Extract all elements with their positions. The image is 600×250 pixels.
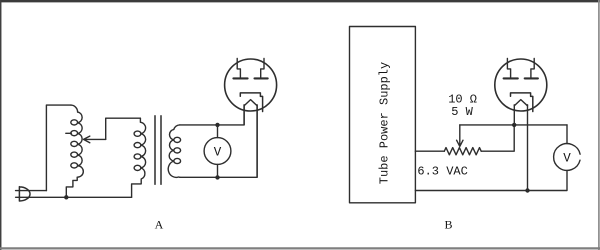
tube V2 cathode (511, 93, 533, 112)
wire: wiper to transformer primary (106, 118, 141, 139)
border frame bottom (0, 247, 600, 249)
tube V1 right plate lead (261, 58, 264, 77)
transformer T2 secondary top hook (174, 125, 180, 129)
AC plug P1 top prong wire (16, 190, 47, 192)
transformer T2 primary loop circles (134, 131, 141, 136)
junction dot bottom wire / voltmeter A (215, 175, 219, 179)
wire: plug top prong riser up to variac top (46, 105, 71, 191)
svg-text:6.3 VAC: 6.3 VAC (417, 164, 467, 178)
transformer T2 primary top step (139, 118, 141, 122)
tube V1 filament left pin (243, 105, 245, 125)
variac T1 top hook (71, 105, 78, 112)
wire: voltmeter M2 top lead (566, 125, 568, 144)
svg-text:Tube Power Supply: Tube Power Supply (378, 62, 392, 184)
tube V1 filament right pin (256, 105, 258, 178)
junction dot bottom wire / tube pin (525, 188, 529, 192)
Tube Power Supply box (350, 27, 416, 203)
tube V1 envelope (225, 59, 277, 111)
variac wiper arrow (84, 136, 106, 143)
wire: box to resistor (415, 150, 444, 152)
bottom wire: plug bottom prong to transformer primary (16, 196, 132, 198)
tube V2 envelope (495, 59, 547, 111)
tube V2 filament left pin (513, 105, 515, 125)
junction dot top wire / voltmeter A (215, 123, 219, 127)
AC plug P1 body (19, 187, 30, 201)
transformer T2 primary winding arcs (141, 122, 146, 168)
variac T1 winding arcs (78, 112, 83, 166)
top wire B: wiper to voltmeter (460, 124, 567, 126)
transformer T2 secondary bottom lead (168, 161, 180, 177)
tube V2 right plate lead (531, 58, 534, 77)
tube V1 filament (244, 100, 257, 106)
voltmeter M2 body (554, 144, 581, 171)
transformer T2 secondary winding arcs (169, 129, 174, 161)
tube V2 filament (514, 100, 527, 106)
svg-text:V: V (563, 151, 571, 165)
variac wiper position tick (66, 132, 72, 134)
junction dot node B1 (512, 123, 516, 127)
border frame right (598, 0, 600, 250)
resistor R1 10 ohm 5 W (444, 148, 481, 155)
tube V2 right plate (525, 77, 538, 79)
transformer T2 core (155, 116, 161, 184)
transformer T2 primary bottom lead step (132, 168, 145, 197)
svg-text:A: A (155, 217, 164, 231)
tube V2 left plate lead (507, 58, 510, 77)
svg-text:5 W: 5 W (451, 105, 473, 119)
border frame left (0, 0, 2, 250)
tube V2 filament right pin (527, 105, 529, 191)
wire: resistor right to node B1 (481, 125, 514, 151)
voltmeter M2 bottom lead and bottom wire to box (415, 170, 567, 190)
tube V1 left plate (233, 77, 247, 79)
svg-text:V: V (214, 145, 222, 159)
variac T1 bottom lead (66, 166, 83, 198)
voltmeter M1 body (204, 138, 231, 165)
transformer T2 secondary loop circles (174, 137, 181, 142)
junction dot variac-bottom / bottom wire (64, 195, 68, 199)
variac T1 winding loop circles (71, 120, 78, 125)
tube V1 right plate (255, 77, 268, 79)
tube V2 left plate (504, 77, 518, 79)
tube V1 cathode (240, 93, 262, 112)
voltmeter M1 leads (217, 125, 219, 177)
wire: secondary bottom to tube filament right (180, 106, 257, 177)
tube V1 left plate lead (237, 58, 240, 77)
rheostat wiper arrow R1 (457, 125, 463, 146)
svg-text:B: B (444, 217, 452, 231)
border frame top (0, 0, 600, 2)
wire: secondary top to tube filament (node) (180, 106, 244, 125)
